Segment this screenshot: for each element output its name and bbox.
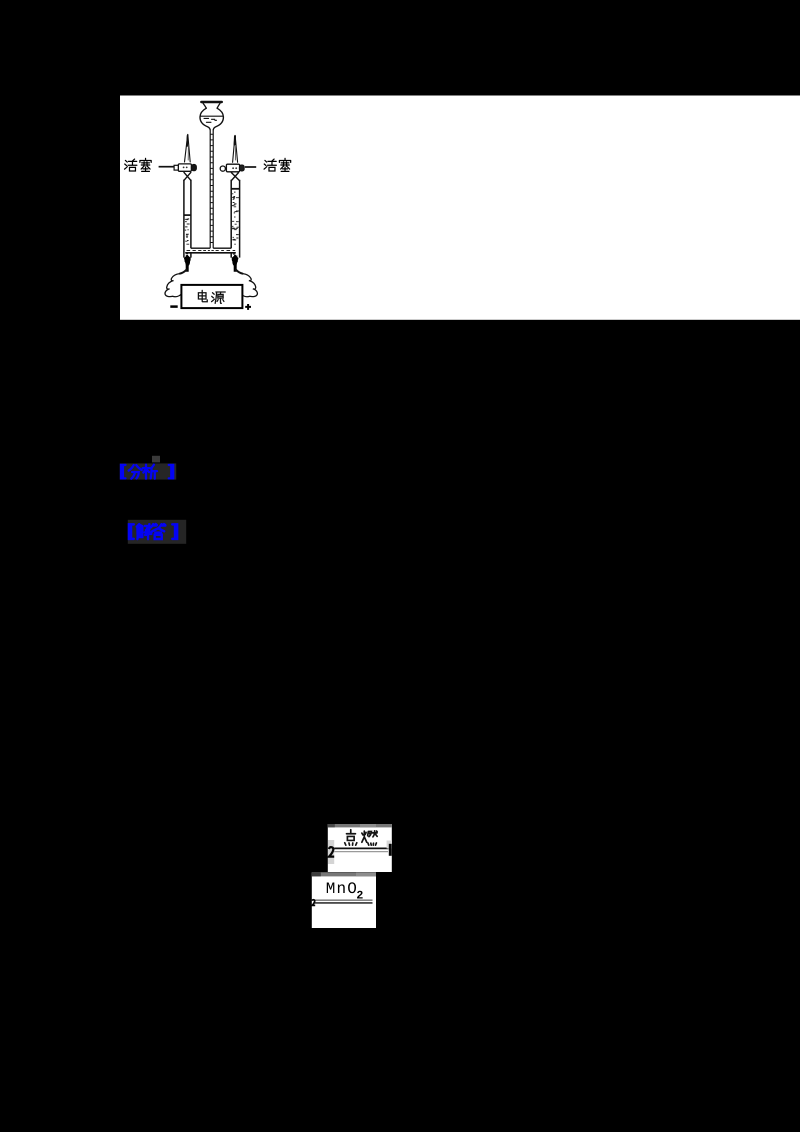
equation condition box 点燃: [328, 824, 392, 872]
power supply box 电源: [181, 285, 242, 308]
right stopcock: [220, 164, 244, 172]
left electrode: [184, 254, 191, 271]
funnel bulb (reservoir): [200, 102, 223, 130]
white panel band: [120, 96, 800, 320]
MnO2 text: [326, 880, 364, 903]
left tube liquid texture: [185, 219, 190, 255]
blue heading 【分析】: [121, 465, 173, 479]
活塞 label left: [125, 158, 152, 171]
gray caret above 分析: [152, 456, 160, 463]
left jet spike: [185, 134, 191, 162]
left stopcock: [174, 164, 196, 171]
left collection tube: [184, 180, 191, 258]
right wire (coiled): [236, 270, 258, 297]
点燃 equation line: [333, 848, 389, 851]
right collection tube: [231, 180, 239, 258]
blue heading 【解答】: [129, 524, 177, 539]
right tube neck X: [231, 173, 239, 181]
minus terminal: [170, 305, 177, 308]
left wire (coiled): [165, 270, 187, 297]
left leader line: [159, 166, 174, 168]
left tube neck X: [184, 172, 191, 180]
gray highlight behind 分析: [120, 463, 176, 479]
电源 glyphs: [198, 290, 225, 303]
plus terminal: [245, 304, 251, 310]
connector water dashes: [187, 250, 236, 252]
活塞 label right: [264, 158, 291, 171]
bottom connector tube: [185, 248, 236, 253]
right electrode: [232, 254, 239, 271]
right jet spike: [233, 135, 238, 162]
right leader line: [245, 166, 256, 168]
svg-text:2: 2: [356, 890, 363, 903]
gray highlight behind 解答: [128, 520, 186, 544]
left edge mark of MnO2 box: [312, 900, 315, 906]
MnO2 equation double line: [314, 900, 373, 903]
middle graduated tube: [210, 130, 213, 249]
funnel water line and dashes: [201, 116, 223, 122]
right edge mark of 点燃 box: [387, 841, 392, 856]
equation condition box MnO2: [312, 872, 376, 928]
left edge mark of 点燃 box: [328, 840, 334, 864]
svg-text:MnO: MnO: [326, 880, 358, 898]
right tube liquid texture: [232, 192, 240, 256]
点燃 glyphs: [345, 830, 377, 845]
